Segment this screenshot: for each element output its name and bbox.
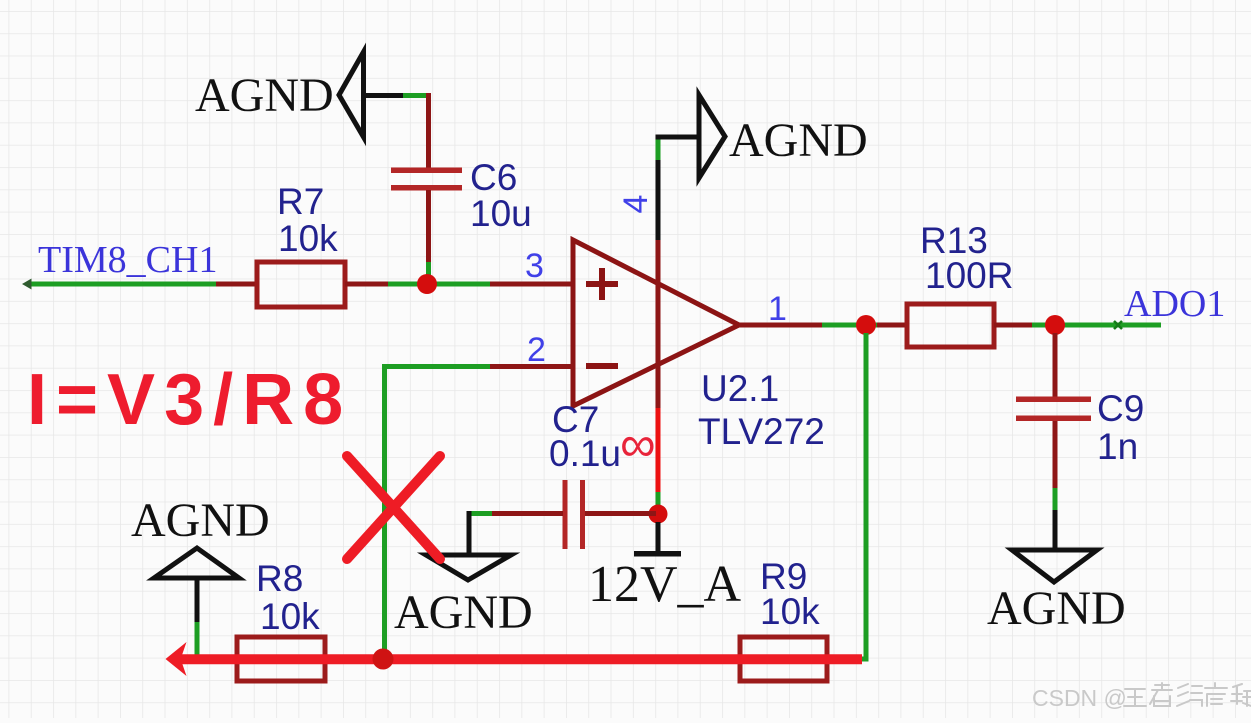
wire C7 right to 12V node bbox=[585, 511, 656, 516]
junction node at R7/C6 bbox=[417, 274, 437, 294]
junction node bottom bbox=[373, 649, 394, 670]
svg-text:AGND: AGND bbox=[131, 494, 270, 547]
svg-text:12V_A: 12V_A bbox=[588, 556, 742, 613]
ground AGND top-middle symbol bbox=[656, 95, 726, 178]
svg-text:I=V3/R8: I=V3/R8 bbox=[27, 360, 352, 440]
svg-text:4: 4 bbox=[617, 195, 655, 214]
svg-text:C9: C9 bbox=[1097, 388, 1144, 429]
svg-text:AGND: AGND bbox=[195, 69, 334, 122]
power 12V_A symbol bbox=[634, 522, 681, 557]
resistor R7 bbox=[257, 262, 345, 307]
annotation red arrow bbox=[166, 642, 863, 676]
op-amp U2.1 bbox=[573, 240, 739, 406]
capacitor C7 bbox=[563, 480, 586, 549]
svg-text:R8: R8 bbox=[256, 558, 303, 599]
svg-text:3: 3 bbox=[525, 247, 544, 285]
junction node R13/C9 bbox=[1045, 315, 1065, 335]
svg-text:U2.1: U2.1 bbox=[701, 368, 779, 409]
svg-text:1: 1 bbox=[768, 290, 787, 328]
bottom feedback wire bbox=[170, 333, 866, 662]
svg-text:1n: 1n bbox=[1097, 426, 1138, 467]
wire R7 to opamp bbox=[345, 282, 573, 287]
svg-text:CSDN @: CSDN @ bbox=[1032, 685, 1127, 711]
node anchor tick bbox=[1114, 321, 1122, 329]
svg-text:0.1u: 0.1u bbox=[549, 433, 621, 474]
svg-text:100R: 100R bbox=[925, 255, 1013, 296]
annotation red X bbox=[347, 456, 440, 559]
svg-text:TLV272: TLV272 bbox=[698, 411, 825, 452]
svg-text:AGND: AGND bbox=[987, 582, 1126, 635]
ground AGND bottom-left symbol bbox=[154, 548, 239, 659]
wire AGND to C6 bbox=[426, 93, 431, 169]
svg-text:AGND: AGND bbox=[394, 586, 533, 639]
svg-text:10k: 10k bbox=[760, 591, 820, 632]
svg-text:10k: 10k bbox=[260, 596, 320, 637]
wire R13 to ADO1 bbox=[994, 323, 1161, 328]
svg-text:AGND: AGND bbox=[729, 114, 868, 167]
wire TIM8_CH1 horizontal bbox=[22, 279, 258, 290]
capacitor C6 bbox=[391, 168, 462, 191]
wire C6 to junction bbox=[426, 190, 431, 284]
wire C9 to ground bbox=[1053, 421, 1058, 551]
wire pin2 bbox=[382, 364, 573, 658]
svg-text:∞: ∞ bbox=[620, 416, 656, 472]
junction node 12V_A bbox=[649, 505, 668, 524]
svg-text:10k: 10k bbox=[278, 218, 338, 259]
resistor R8 bbox=[237, 637, 325, 681]
svg-text:TIM8_CH1: TIM8_CH1 bbox=[38, 239, 217, 281]
resistor R9 bbox=[740, 637, 827, 681]
capacitor C9 bbox=[1016, 397, 1091, 422]
junction node output bbox=[856, 315, 876, 335]
ground AGND top-left symbol bbox=[339, 52, 431, 137]
wire pin4 vertical bbox=[656, 135, 661, 506]
wire opamp output bbox=[739, 323, 907, 328]
svg-text:10u: 10u bbox=[470, 193, 532, 234]
wire C7 left to ground bbox=[467, 511, 564, 556]
svg-text:C6: C6 bbox=[470, 157, 517, 198]
ground AGND below C7 symbol bbox=[426, 555, 511, 580]
wire junction to C9 bbox=[1053, 333, 1058, 398]
svg-text:R7: R7 bbox=[277, 181, 324, 222]
resistor R13 bbox=[907, 304, 994, 347]
svg-text:2: 2 bbox=[527, 331, 546, 369]
ground AGND bottom-right symbol bbox=[1012, 550, 1097, 582]
svg-text:ADO1: ADO1 bbox=[1124, 283, 1225, 325]
